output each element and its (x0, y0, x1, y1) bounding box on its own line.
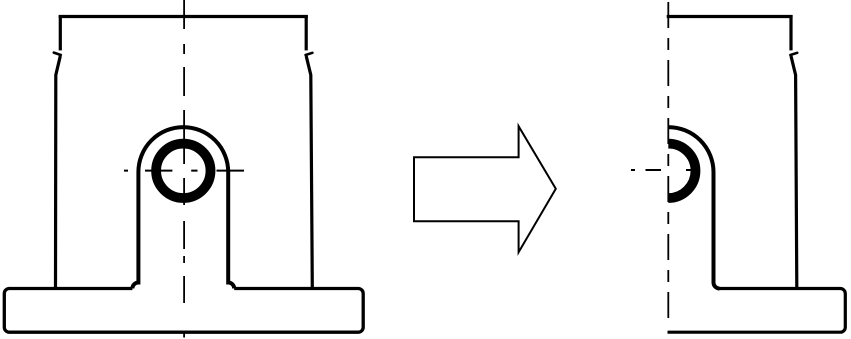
right half view: base plate half outline (668, 289, 846, 333)
right half view: right side lower edge with draft (791, 56, 797, 288)
left view: left side lower edge with draft (56, 56, 61, 288)
right half view: right side break tick (790, 53, 797, 55)
right half view: vertical centerline (symmetry axis) (667, 2, 669, 324)
right half view: bore half circle (668, 144, 695, 198)
right half view: hub quarter arc and slot side (668, 127, 719, 288)
left view: base plate outline (4, 289, 363, 333)
left view: right side break tick (306, 53, 313, 55)
left view: top edge (60, 15, 306, 18)
left view: bore circle (156, 144, 210, 198)
direction arrow (414, 126, 556, 252)
right half view: bore horizontal centerline (631, 169, 698, 171)
left view: right side lower edge with draft (306, 56, 312, 288)
right half view: top edge (668, 15, 791, 18)
left view: hub arc and slot sides (132, 127, 234, 288)
left view: vertical centerline (183, 0, 185, 338)
right half view: right side upper vertical (789, 15, 792, 50)
left view: left side upper vertical (59, 15, 62, 50)
left view: left side break tick (54, 53, 61, 55)
left view: bore horizontal centerline (124, 170, 244, 172)
left view: right side upper vertical (305, 15, 308, 50)
